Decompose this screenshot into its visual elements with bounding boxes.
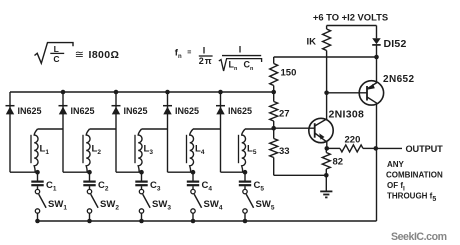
svg-text:Ω: Ω	[111, 49, 119, 61]
svg-text:DI52: DI52	[384, 38, 407, 50]
svg-text:33: 33	[279, 146, 290, 157]
svg-text:COMBINATION: COMBINATION	[386, 171, 443, 180]
svg-text:ANY: ANY	[387, 160, 405, 169]
svg-text:220: 220	[345, 135, 361, 146]
svg-text:2N652: 2N652	[383, 74, 415, 85]
svg-text:=: =	[187, 50, 191, 57]
svg-text:2π: 2π	[199, 56, 213, 66]
svg-text:2NI308: 2NI308	[329, 108, 365, 120]
svg-text:27: 27	[279, 109, 290, 120]
svg-text:I: I	[203, 45, 206, 55]
svg-text:+6 TO +I2 VOLTS: +6 TO +I2 VOLTS	[313, 12, 388, 23]
svg-text:IN625: IN625	[18, 106, 42, 116]
svg-text:82: 82	[333, 157, 344, 168]
svg-text:IN625: IN625	[71, 106, 95, 116]
svg-text:SeekIC.com: SeekIC.com	[391, 231, 447, 243]
svg-text:150: 150	[281, 68, 297, 79]
svg-text:IN625: IN625	[175, 106, 199, 116]
svg-text:I: I	[239, 45, 242, 55]
svg-text:OUTPUT: OUTPUT	[406, 144, 444, 154]
svg-text:IK: IK	[307, 37, 317, 48]
svg-text:≅: ≅	[75, 49, 84, 61]
svg-text:C: C	[53, 54, 59, 64]
svg-text:IN625: IN625	[228, 106, 252, 116]
svg-text:L: L	[54, 44, 59, 54]
svg-text:IN625: IN625	[124, 106, 148, 116]
svg-text:I800: I800	[89, 49, 111, 61]
